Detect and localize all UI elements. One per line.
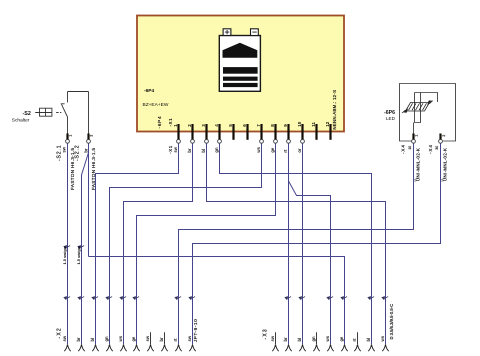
svg-text:FASTON H6.3-1.5: FASTON H6.3-1.5 [91, 147, 96, 190]
svg-text:bl: bl [297, 338, 302, 342]
svg-text:12: 12 [325, 121, 330, 127]
svg-text:11: 11 [311, 122, 316, 127]
svg-text:gn: gn [214, 147, 219, 153]
svg-text:1: 1 [415, 135, 419, 137]
svg-text:UNI-MNL-02-K: UNI-MNL-02-K [442, 148, 447, 181]
svg-text:10: 10 [297, 121, 302, 127]
svg-text:-S2: -S2 [23, 111, 31, 117]
svg-text:bl: bl [366, 338, 371, 342]
svg-text:UNI-MNL-02-K: UNI-MNL-02-K [415, 148, 420, 181]
svg-text:1.5 sw/gn: 1.5 sw/gn [76, 246, 81, 264]
svg-text:sw: sw [61, 146, 66, 152]
svg-text:br: br [283, 337, 288, 342]
svg-text:br: br [84, 148, 89, 153]
svg-text:br: br [187, 148, 192, 153]
svg-text:1: 1 [69, 135, 73, 137]
svg-text:ge: ge [131, 336, 136, 342]
svg-text:-S2.2: -S2.2 [75, 145, 81, 161]
svg-text:ge: ge [339, 336, 344, 342]
svg-text:sw: sw [62, 335, 67, 341]
svg-text:sw: sw [270, 335, 275, 341]
svg-text:JPT-9-10: JPT-9-10 [193, 319, 199, 342]
svg-text:30: 30 [435, 146, 439, 150]
svg-text:-6P6: -6P6 [384, 110, 395, 116]
svg-text:-6P4: -6P4 [144, 88, 154, 94]
svg-text:-X4: -X4 [428, 144, 433, 154]
svg-text:NENN.ABM.: 12-S: NENN.ABM.: 12-S [332, 90, 337, 130]
svg-text:ws: ws [380, 335, 385, 342]
svg-text:2: 2 [90, 135, 94, 137]
svg-text:rt: rt [283, 149, 288, 153]
svg-text:10: 10 [408, 146, 412, 150]
svg-text:br: br [76, 337, 81, 342]
svg-text:-X4: -X4 [401, 144, 406, 154]
svg-text:bl: bl [201, 149, 206, 153]
svg-text:ws: ws [118, 335, 123, 342]
svg-text:rt: rt [352, 338, 357, 342]
svg-text:bl: bl [90, 338, 95, 342]
svg-text:sw: sw [187, 335, 192, 341]
svg-text:D 3.5/6.3/9.5-0.5-C: D 3.5/6.3/9.5-0.5-C [389, 304, 394, 340]
svg-text:2: 2 [442, 135, 446, 137]
svg-text:BZ+EA+EW: BZ+EA+EW [143, 102, 169, 108]
svg-text:Schalter: Schalter [12, 118, 30, 124]
svg-text:ws: ws [256, 146, 261, 153]
svg-text:gn: gn [311, 336, 316, 342]
svg-text:ge: ge [270, 147, 275, 153]
svg-text:-6P4: -6P4 [157, 116, 162, 129]
svg-text:ws: ws [325, 335, 330, 342]
svg-text:LED: LED [386, 116, 396, 121]
svg-text:or: or [297, 148, 302, 153]
svg-text:1.5 sw/gn: 1.5 sw/gn [62, 246, 67, 264]
svg-text:br: br [159, 337, 164, 342]
svg-text:sw: sw [145, 335, 150, 341]
svg-text:rt: rt [173, 338, 178, 342]
svg-text:sw: sw [173, 146, 178, 152]
svg-text:gn: gn [104, 336, 109, 342]
svg-text:-X3: -X3 [262, 328, 268, 339]
